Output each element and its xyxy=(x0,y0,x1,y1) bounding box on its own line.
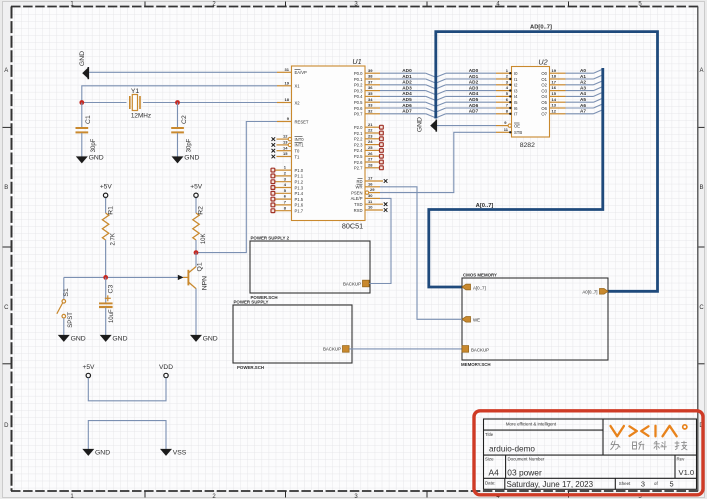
block CMOS MEMORY xyxy=(461,273,608,367)
wire A7 net xyxy=(566,109,603,114)
svg-text:O2: O2 xyxy=(541,83,547,88)
svg-text:P1.4: P1.4 xyxy=(295,191,304,196)
svg-text:A[0..7]: A[0..7] xyxy=(476,203,494,209)
pin CMOS WE xyxy=(462,317,480,323)
svg-text:19: 19 xyxy=(285,80,290,85)
svg-text:Document Number: Document Number xyxy=(508,457,545,462)
wire WR to WE xyxy=(380,187,462,319)
svg-text:Rev: Rev xyxy=(677,456,686,461)
pin U1.8 P1.7 xyxy=(271,205,304,213)
pin U1.18 X2 xyxy=(277,97,300,105)
svg-text:P1.5: P1.5 xyxy=(295,197,304,202)
svg-text:12: 12 xyxy=(283,134,288,139)
svg-text:R2: R2 xyxy=(198,206,205,215)
svg-text:NPN: NPN xyxy=(201,276,208,290)
svg-text:P0.7: P0.7 xyxy=(354,112,363,117)
svg-text:17: 17 xyxy=(368,176,373,181)
svg-text:P2.6: P2.6 xyxy=(354,160,363,165)
svg-text:D: D xyxy=(4,423,9,429)
svg-text:P2.0: P2.0 xyxy=(354,125,363,130)
svg-text:+5V: +5V xyxy=(190,184,203,191)
svg-text:P2.5: P2.5 xyxy=(354,154,363,159)
block POWER SUPPLY xyxy=(233,300,352,370)
svg-text:AD3: AD3 xyxy=(402,85,412,90)
pin U2.6 I5 xyxy=(496,97,518,105)
svg-text:Sheet: Sheet xyxy=(619,481,631,486)
svg-text:32: 32 xyxy=(368,108,373,113)
svg-text:Size: Size xyxy=(485,457,494,462)
svg-text:A: A xyxy=(4,68,8,74)
svg-text:18: 18 xyxy=(552,74,557,79)
pin U1.34 P0.5 xyxy=(354,97,380,105)
pin U1.9 RESET xyxy=(277,116,309,124)
svg-text:AD6: AD6 xyxy=(402,103,412,108)
svg-text:STB: STB xyxy=(514,130,522,135)
svg-text:WE: WE xyxy=(473,318,480,323)
wire +5V to VDD xyxy=(88,378,166,401)
svg-text:INT1: INT1 xyxy=(295,143,305,148)
svg-text:AD4: AD4 xyxy=(469,91,479,96)
wire AD0 net (U2 side) xyxy=(436,68,496,77)
svg-text:OE: OE xyxy=(514,123,520,128)
pin U1.21 P2.0 xyxy=(354,122,383,130)
svg-text:C3: C3 xyxy=(107,285,114,294)
svg-text:12: 12 xyxy=(552,108,557,113)
svg-text:14: 14 xyxy=(552,97,557,102)
svg-text:POWER SUPPLY 2: POWER SUPPLY 2 xyxy=(251,236,290,241)
svg-text:A5: A5 xyxy=(580,97,586,102)
wire A4 net xyxy=(566,91,603,96)
svg-text:P0.5: P0.5 xyxy=(354,100,363,105)
pin U1.30 ALE/P xyxy=(351,193,380,201)
svg-text:SPST: SPST xyxy=(68,312,74,328)
switch S1 SPST xyxy=(57,277,74,335)
svg-text:O4: O4 xyxy=(541,94,547,99)
svg-text:28: 28 xyxy=(368,162,373,167)
wire AD3 net (U2 side) xyxy=(436,85,496,94)
svg-text:WR: WR xyxy=(356,185,363,190)
svg-text:P2.1: P2.1 xyxy=(354,131,363,136)
wire RESET net xyxy=(196,122,277,253)
svg-text:EA/VP: EA/VP xyxy=(295,70,308,75)
svg-text:30: 30 xyxy=(368,193,373,198)
svg-text:VSS: VSS xyxy=(173,449,187,456)
wire A0 net xyxy=(566,68,603,73)
pin U1.13 INT1 (no-connect) xyxy=(272,140,305,148)
svg-text:AD4: AD4 xyxy=(402,91,412,96)
svg-text:GND: GND xyxy=(184,154,199,161)
power +5V (bottom rail) xyxy=(83,364,96,378)
svg-text:A0: A0 xyxy=(580,68,586,73)
wire AD4 net (U1 side) xyxy=(380,91,436,100)
logo VXIN xyxy=(611,425,687,437)
svg-text:17: 17 xyxy=(552,79,557,84)
svg-text:16: 16 xyxy=(552,85,557,90)
svg-text:AD1: AD1 xyxy=(469,74,479,79)
svg-text:21: 21 xyxy=(368,122,373,127)
svg-text:INT0: INT0 xyxy=(295,137,305,142)
pin U1.23 P2.2 xyxy=(354,133,383,141)
pin U1.19 X1 xyxy=(277,80,300,88)
pin U1.24 P2.3 xyxy=(354,139,383,147)
ground GND arrow (EA/VP) xyxy=(79,51,88,79)
svg-text:3: 3 xyxy=(641,480,645,489)
pin U2.14 O5 xyxy=(541,97,565,105)
svg-text:U2: U2 xyxy=(538,57,547,66)
svg-text:X1: X1 xyxy=(295,84,301,89)
wire X1 net xyxy=(82,86,277,103)
wire A2 net xyxy=(566,80,603,85)
svg-text:AD0: AD0 xyxy=(469,68,479,73)
pin U1.35 P0.4 xyxy=(354,91,380,99)
pin U1.32 P0.7 xyxy=(354,108,380,116)
svg-text:O7: O7 xyxy=(541,112,547,117)
svg-text:P1.0: P1.0 xyxy=(295,168,304,173)
pin U1.37 P0.2 xyxy=(354,79,380,87)
pin U1.33 P0.6 xyxy=(354,103,380,111)
svg-text:AD2: AD2 xyxy=(469,80,479,85)
svg-text:O1: O1 xyxy=(541,77,547,82)
svg-text:A6: A6 xyxy=(580,103,586,108)
pin U2.1 I0 xyxy=(496,68,518,76)
svg-text:A4: A4 xyxy=(580,91,586,96)
svg-text:RXD: RXD xyxy=(354,208,363,213)
svg-text:GND: GND xyxy=(112,335,127,342)
pin CMOS A[0..7] (right) xyxy=(582,289,608,295)
svg-text:BACKUP: BACKUP xyxy=(323,347,341,352)
svg-text:BACKUP: BACKUP xyxy=(343,281,361,286)
pin U1.27 P2.6 xyxy=(354,157,383,165)
svg-text:P2.7: P2.7 xyxy=(354,166,363,171)
svg-text:A4: A4 xyxy=(489,467,500,477)
svg-text:AD7: AD7 xyxy=(402,109,412,114)
svg-text:15: 15 xyxy=(552,91,557,96)
svg-text:C2: C2 xyxy=(181,115,188,124)
wire A1 net xyxy=(566,74,603,79)
pin U1.14 T0 (no-connect) xyxy=(272,145,301,153)
svg-text:A0[0..7]: A0[0..7] xyxy=(582,290,597,295)
svg-text:30pF: 30pF xyxy=(91,138,97,152)
svg-text:O6: O6 xyxy=(541,106,547,111)
svg-text:12MHz: 12MHz xyxy=(131,113,151,120)
svg-text:AD3: AD3 xyxy=(469,85,479,90)
resistor R2 10K xyxy=(193,198,207,253)
pin U1.22 P2.1 xyxy=(354,128,383,136)
svg-text:O0: O0 xyxy=(541,71,547,76)
svg-text:36: 36 xyxy=(368,85,373,90)
pin U1.4 P1.3 xyxy=(271,182,304,190)
svg-text:RESET: RESET xyxy=(295,119,309,124)
wire base net (S1/C3/Q1) xyxy=(64,276,178,278)
bus A[0..7] xyxy=(429,68,603,287)
svg-text:V1.0: V1.0 xyxy=(679,468,695,477)
pin U1.2 P1.1 xyxy=(271,171,304,179)
svg-text:P0.4: P0.4 xyxy=(354,94,363,99)
ground (Q1 emitter) xyxy=(190,335,218,343)
pin U1.16 WR xyxy=(356,181,380,189)
capacitor C3 10uF xyxy=(99,277,115,335)
svg-text:30pF: 30pF xyxy=(187,138,193,152)
pin U1.1 P1.0 xyxy=(271,165,304,173)
svg-text:80C51: 80C51 xyxy=(342,222,363,231)
svg-text:A[0..7]: A[0..7] xyxy=(473,285,486,290)
wire AD6 net (U2 side) xyxy=(436,103,496,112)
svg-text:P1.1: P1.1 xyxy=(295,174,304,179)
svg-text:T0: T0 xyxy=(295,149,301,154)
pin U2.7 I6 xyxy=(496,103,518,111)
pin U2.9 OE xyxy=(496,120,520,128)
svg-text:C: C xyxy=(4,305,9,311)
pin U2.4 I3 xyxy=(496,85,518,93)
pin U1.11 TXD (no-connect) xyxy=(354,199,387,207)
capacitor C2 30pF xyxy=(171,103,192,157)
svg-text:13: 13 xyxy=(283,140,288,145)
pin U1.15 T1 (no-connect) xyxy=(272,151,301,159)
pin CMOS A[0..7] (left) xyxy=(462,284,486,290)
svg-text:GND: GND xyxy=(203,335,218,342)
svg-text:C: C xyxy=(699,305,704,311)
svg-text:03 power: 03 power xyxy=(507,468,542,478)
pin U2.12 O7 xyxy=(541,108,565,116)
svg-text:MEMORY.SCH: MEMORY.SCH xyxy=(461,362,491,367)
ground (C3) xyxy=(100,335,128,343)
ground VSS xyxy=(160,449,187,457)
svg-text:O3: O3 xyxy=(541,88,547,93)
wire AD1 net (U2 side) xyxy=(436,74,496,83)
wire BACKUP to CMOS BACKUP xyxy=(349,348,462,350)
bus AD[0..7] xyxy=(436,25,658,292)
svg-text:POWER.SCH: POWER.SCH xyxy=(237,365,264,370)
svg-text:P0.2: P0.2 xyxy=(354,83,363,88)
svg-text:TXD: TXD xyxy=(354,202,362,207)
node junction C2/Y1 xyxy=(175,100,180,105)
svg-text:A1: A1 xyxy=(580,74,586,79)
pin U2.17 O2 xyxy=(541,79,565,87)
svg-text:P1.3: P1.3 xyxy=(295,185,304,190)
svg-text:19: 19 xyxy=(552,68,557,73)
svg-text:GND: GND xyxy=(95,449,110,456)
transistor Q1 NPN xyxy=(178,253,209,335)
power +5V (R1) xyxy=(100,184,113,199)
wire AD4 net (U2 side) xyxy=(436,91,496,100)
wire AD2 net (U1 side) xyxy=(380,80,436,89)
pin CMOS BACKUP xyxy=(462,346,489,353)
svg-text:15: 15 xyxy=(283,151,288,156)
svg-text:Title: Title xyxy=(485,432,494,437)
svg-text:GND: GND xyxy=(89,154,104,161)
svg-text:P0.0: P0.0 xyxy=(354,71,363,76)
svg-text:10: 10 xyxy=(368,205,373,210)
ground (C1) xyxy=(76,154,104,163)
svg-text:23: 23 xyxy=(368,133,373,138)
svg-text:P0.6: P0.6 xyxy=(354,106,363,111)
svg-text:ALE/P: ALE/P xyxy=(351,196,363,201)
ground (C2) xyxy=(172,154,200,163)
pin U2.15 O4 xyxy=(541,91,565,99)
pin U1.7 P1.6 xyxy=(271,200,304,208)
pin U2.2 I1 xyxy=(496,74,518,82)
node junction C1/Y1 xyxy=(79,100,84,105)
svg-text:Y1: Y1 xyxy=(131,88,140,95)
svg-text:P1.6: P1.6 xyxy=(295,203,304,208)
svg-text:P0.1: P0.1 xyxy=(354,77,363,82)
wire A5 net xyxy=(566,97,603,102)
svg-text:+5V: +5V xyxy=(83,364,96,371)
svg-text:AD5: AD5 xyxy=(402,97,412,102)
svg-text:34: 34 xyxy=(368,97,373,102)
wire A6 net xyxy=(566,103,603,108)
logo text (CJK) xyxy=(611,441,687,450)
svg-text:P2.2: P2.2 xyxy=(354,137,363,142)
wire A3 net xyxy=(566,85,603,90)
power +5V (R2) xyxy=(190,184,203,199)
svg-text:A2: A2 xyxy=(580,80,586,85)
svg-text:AD6: AD6 xyxy=(469,103,479,108)
svg-text:BACKUP: BACKUP xyxy=(471,347,489,352)
svg-text:More efficient & intelligent: More efficient & intelligent xyxy=(506,421,557,426)
wire GND to VSS xyxy=(88,421,166,449)
svg-text:+5V: +5V xyxy=(100,184,113,191)
svg-text:GND: GND xyxy=(71,335,86,342)
svg-text:GND: GND xyxy=(417,117,424,132)
pin U1.25 P2.4 xyxy=(354,145,383,153)
svg-text:2.7K: 2.7K xyxy=(111,233,117,245)
op-amp U2 8282 body xyxy=(512,57,550,149)
pin U2.5 I4 xyxy=(496,91,518,99)
pin U2.18 O1 xyxy=(541,74,565,82)
wire AD5 net (U2 side) xyxy=(436,97,496,106)
svg-text:AD7: AD7 xyxy=(469,109,479,114)
svg-text:P0.3: P0.3 xyxy=(354,88,363,93)
pin U2.19 O0 xyxy=(541,68,565,76)
svg-text:GND: GND xyxy=(79,51,86,66)
pin U1.6 P1.5 xyxy=(271,194,304,202)
wire X2 net xyxy=(82,102,127,104)
block POWER SUPPLY 2 xyxy=(250,236,370,300)
wire OE to GND xyxy=(437,125,496,127)
svg-text:14: 14 xyxy=(283,145,288,150)
crystal Y1 12MHz xyxy=(130,88,151,120)
svg-text:C1: C1 xyxy=(85,115,92,124)
svg-text:24: 24 xyxy=(368,139,373,144)
pin U2.11 STB xyxy=(496,127,522,135)
pin U1.3 P1.2 xyxy=(271,176,304,184)
svg-text:37: 37 xyxy=(368,79,373,84)
svg-text:AD5: AD5 xyxy=(469,97,479,102)
pin U1.31 EA/VP xyxy=(277,67,307,75)
pin U1.38 P0.1 xyxy=(354,74,380,82)
svg-text:33: 33 xyxy=(368,103,373,108)
svg-text:25: 25 xyxy=(368,145,373,150)
svg-text:10uF: 10uF xyxy=(109,309,115,323)
svg-text:P1.2: P1.2 xyxy=(295,180,304,185)
pin U1.26 P2.5 xyxy=(354,151,383,159)
svg-text:16: 16 xyxy=(368,181,373,186)
svg-text:26: 26 xyxy=(368,151,373,156)
capacitor C1 30pF xyxy=(76,103,97,157)
resistor R1 2.7K xyxy=(102,198,116,278)
svg-text:Saturday, June 17, 2023: Saturday, June 17, 2023 xyxy=(507,480,594,489)
wire AD0 net (U1 side) xyxy=(380,68,436,77)
svg-text:A: A xyxy=(699,68,703,74)
svg-text:R1: R1 xyxy=(107,206,114,215)
svg-text:18: 18 xyxy=(285,97,290,102)
wire EA/VP net xyxy=(89,71,277,73)
svg-text:AD[0..7]: AD[0..7] xyxy=(530,25,552,31)
ground GND (bottom) xyxy=(82,449,110,457)
svg-text:CMOS MEMORY: CMOS MEMORY xyxy=(463,273,497,278)
svg-text:P1.7: P1.7 xyxy=(295,209,304,214)
wire AD7 net (U2 side) xyxy=(436,109,496,118)
svg-text:arduio-demo: arduio-demo xyxy=(489,445,535,454)
svg-text:27: 27 xyxy=(368,157,373,162)
pin U1.39 P0.0 xyxy=(354,68,380,76)
pin U1.12 INT0 (no-connect) xyxy=(272,134,305,142)
svg-text:8282: 8282 xyxy=(520,142,535,149)
svg-text:T1: T1 xyxy=(295,154,301,159)
svg-text:39: 39 xyxy=(368,68,373,73)
pin U1.17 RD (no-connect) xyxy=(356,176,387,184)
pin U2.13 O6 xyxy=(541,103,565,111)
svg-text:B: B xyxy=(4,185,8,191)
svg-text:S1: S1 xyxy=(63,288,70,297)
wire ALE to BACKUP (POWER SUPPLY 2) xyxy=(369,198,391,283)
node junction R2-collector xyxy=(194,250,199,255)
highlight box (red) xyxy=(474,411,703,495)
svg-text:10K: 10K xyxy=(201,233,207,244)
ground GND arrow (OE) xyxy=(417,117,437,132)
svg-text:B: B xyxy=(699,185,703,191)
wire AD7 net (U1 side) xyxy=(380,109,436,118)
svg-text:35: 35 xyxy=(368,91,373,96)
svg-text:POWER SUPPLY: POWER SUPPLY xyxy=(234,300,269,305)
svg-text:O5: O5 xyxy=(541,100,547,105)
svg-text:X2: X2 xyxy=(295,100,301,105)
pin U2.3 I2 xyxy=(496,79,518,87)
svg-text:38: 38 xyxy=(368,74,373,79)
pin U2.16 O3 xyxy=(541,85,565,93)
node junction C3 xyxy=(103,275,108,280)
power VDD xyxy=(159,364,173,378)
svg-text:U1: U1 xyxy=(352,57,361,66)
svg-text:AD2: AD2 xyxy=(402,80,412,85)
wire AD6 net (U1 side) xyxy=(380,103,436,112)
svg-text:22: 22 xyxy=(368,128,373,133)
svg-text:5: 5 xyxy=(670,480,674,489)
svg-text:29: 29 xyxy=(370,187,375,192)
svg-text:31: 31 xyxy=(285,67,290,72)
ground (S1) xyxy=(58,335,86,343)
op-amp U1 80C51 body xyxy=(292,57,366,231)
wire AD3 net (U1 side) xyxy=(380,85,436,94)
wire AD2 net (U2 side) xyxy=(436,80,496,89)
wire AD1 net (U1 side) xyxy=(380,74,436,83)
svg-text:PSEN: PSEN xyxy=(351,190,362,195)
svg-text:13: 13 xyxy=(552,103,557,108)
pin U1.29 PSEN xyxy=(351,187,380,195)
svg-text:RD: RD xyxy=(356,179,362,184)
pin U1.10 RXD (no-connect) xyxy=(354,205,388,213)
svg-text:P2.4: P2.4 xyxy=(354,148,363,153)
svg-text:VDD: VDD xyxy=(159,364,173,371)
pin U1.36 P0.3 xyxy=(354,85,380,93)
title block table xyxy=(484,419,697,489)
svg-text:A7: A7 xyxy=(580,109,586,114)
pin U1.28 P2.7 xyxy=(354,162,383,170)
svg-text:Date:: Date: xyxy=(485,481,496,486)
svg-text:A3: A3 xyxy=(580,85,586,90)
wire AD5 net (U1 side) xyxy=(380,97,436,106)
